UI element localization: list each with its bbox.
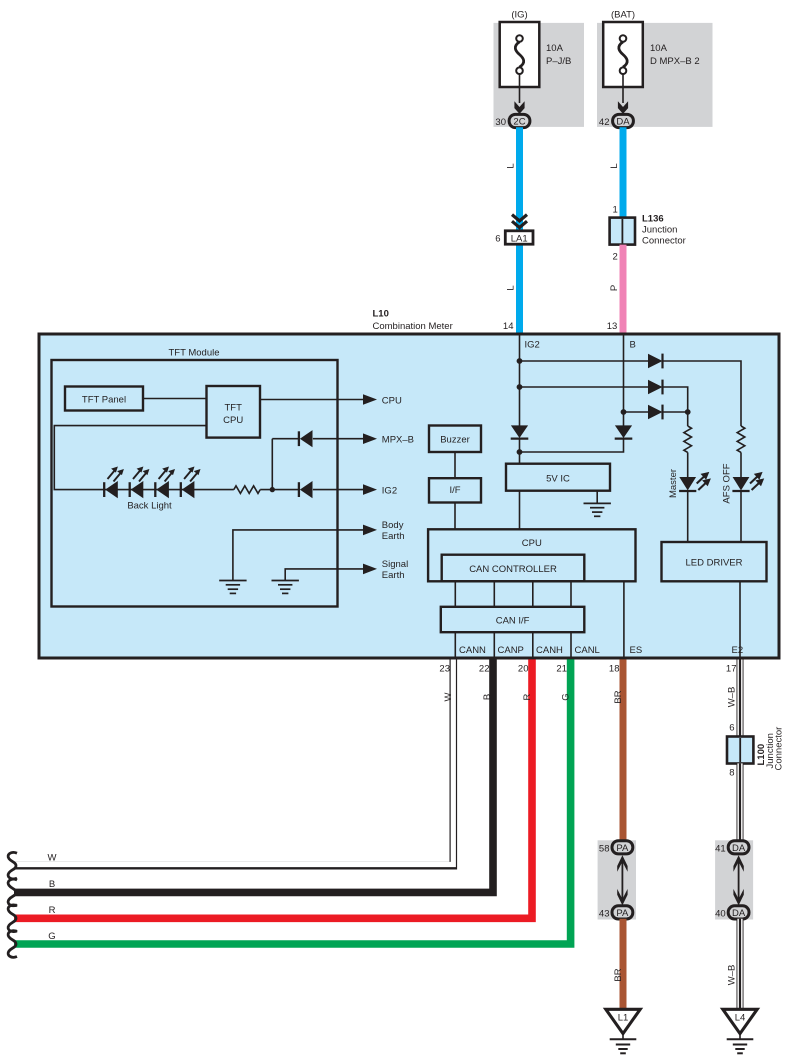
svg-text:10A: 10A: [546, 43, 564, 54]
svg-text:IG2: IG2: [525, 340, 540, 351]
wire CANP out: [493, 632, 495, 657]
break squiggle B: [8, 879, 17, 906]
svg-text:MPX–B: MPX–B: [382, 435, 414, 446]
wire I/F to CPU: [454, 503, 456, 530]
CAN I/F box: [441, 607, 585, 632]
svg-text:5V IC: 5V IC: [546, 474, 570, 485]
svg-text:CPU: CPU: [522, 538, 542, 549]
LED AFS OFF: [732, 472, 764, 491]
wire label W-B: [727, 687, 738, 708]
svg-text:6: 6: [729, 723, 734, 734]
inter-connector arrow DA: [733, 855, 743, 905]
wire L blue DA to L136: [620, 127, 627, 218]
wire fuse F2 to connector DA: [622, 74, 624, 103]
diode D6 row2: [648, 380, 663, 395]
wire IG2 out: [313, 489, 364, 491]
label Master: [668, 469, 679, 498]
svg-text:B: B: [49, 879, 55, 890]
connector DA pin 42: [599, 114, 633, 127]
CAN CONTROLLER box: [442, 555, 585, 582]
arrow into 2C: [514, 101, 524, 114]
svg-text:L136: L136: [642, 214, 664, 225]
net B vertical: [623, 336, 625, 427]
svg-text:Earth: Earth: [382, 531, 405, 542]
junction connector L136: [610, 218, 635, 245]
wire row1 to diode: [520, 360, 649, 362]
connector PA pin 43: [599, 906, 633, 920]
signal earth wire: [285, 569, 364, 581]
L100 label rotated: [756, 744, 767, 766]
wire B CANP pin 22: [14, 658, 493, 892]
svg-text:TFT: TFT: [224, 402, 242, 413]
node dot IG2 a: [517, 358, 523, 364]
wire label W vertical: [443, 692, 454, 701]
svg-text:P: P: [609, 285, 620, 291]
node dot IG2 b: [517, 384, 523, 390]
svg-text:Buzzer: Buzzer: [440, 435, 470, 446]
connector PA pin 58: [599, 841, 633, 855]
svg-text:Body: Body: [382, 520, 404, 531]
CAN bus wire 4: [570, 581, 572, 607]
arrow signal earth: [363, 564, 377, 575]
svg-text:18: 18: [609, 664, 620, 675]
diode D10 MPX-B: [299, 430, 313, 447]
svg-text:PA: PA: [616, 843, 629, 854]
wire color label L: [505, 163, 516, 168]
svg-text:B: B: [482, 694, 493, 700]
arrow MPX-B: [363, 433, 377, 444]
net IG2 vertical: [519, 336, 521, 427]
diode D8 down IG2: [511, 425, 529, 438]
wire 5V IC to CPU: [519, 491, 521, 530]
svg-text:Master: Master: [668, 469, 679, 498]
wire row1 diode to AFS branch: [663, 361, 742, 426]
svg-text:22: 22: [479, 664, 490, 675]
svg-text:W–B: W–B: [727, 687, 738, 708]
wire W CANN pin 23: [12, 658, 453, 866]
wire W-B lower: [737, 919, 744, 1009]
svg-text:20: 20: [518, 664, 529, 675]
svg-text:TFT Module: TFT Module: [168, 348, 219, 359]
svg-text:13: 13: [607, 321, 618, 332]
fuse F1 (IG): [500, 22, 540, 87]
node dot backlight: [270, 487, 275, 492]
svg-text:14: 14: [503, 321, 514, 332]
wire CANN out: [454, 632, 456, 657]
svg-text:G: G: [48, 931, 55, 942]
svg-text:Connector: Connector: [642, 236, 686, 247]
wire color label L: [505, 285, 516, 290]
diode D9 down B: [615, 425, 633, 438]
diode D11 IG2: [299, 481, 313, 498]
svg-text:ES: ES: [630, 645, 643, 656]
I/F box: [429, 478, 481, 502]
svg-text:W: W: [48, 853, 57, 864]
svg-text:AFS OFF: AFS OFF: [721, 463, 732, 503]
5V IC U2: [506, 464, 610, 491]
wire R CANH pin 20: [14, 659, 532, 918]
svg-text:W: W: [443, 692, 454, 701]
arrow IG2: [363, 484, 377, 495]
ground L1: [606, 1009, 640, 1053]
svg-text:Junction: Junction: [642, 225, 677, 236]
ground (body earth): [219, 581, 246, 594]
svg-text:8: 8: [729, 768, 734, 779]
svg-text:CAN I/F: CAN I/F: [496, 616, 530, 627]
fuse F2 (BAT): [603, 22, 643, 87]
wire label B vertical: [482, 694, 493, 700]
wire MPX-B out: [313, 438, 364, 440]
wire label BR: [613, 690, 624, 703]
svg-text:L4: L4: [735, 1013, 746, 1024]
svg-text:42: 42: [599, 117, 610, 128]
wire label BR lower: [613, 968, 624, 981]
wire BR lower: [620, 919, 627, 1009]
CAN bus wire 1: [454, 581, 456, 607]
svg-text:CPU: CPU: [223, 415, 243, 426]
chevron splice: [512, 215, 527, 228]
svg-text:L: L: [505, 285, 516, 290]
wire R3 to LED: [740, 452, 742, 477]
ground (5V IC): [584, 503, 611, 516]
svg-text:Earth: Earth: [382, 570, 405, 581]
svg-text:PA: PA: [616, 908, 629, 919]
ground stub 5V IC: [596, 491, 598, 504]
wire BR upper: [620, 659, 627, 841]
wire W-B upper: [737, 658, 744, 737]
MPX-B branch wire: [271, 439, 273, 490]
connector DA pin 40: [715, 906, 749, 920]
wire row2 to diode: [520, 386, 649, 388]
connector DA gray block: [715, 840, 753, 919]
wire LED AFS to driver: [740, 491, 742, 542]
wire R2 to LED: [687, 452, 689, 477]
svg-text:D MPX–B 2: D MPX–B 2: [650, 56, 700, 67]
wire CANH out: [532, 632, 534, 657]
TFT panel box: [65, 387, 143, 411]
svg-text:BR: BR: [613, 690, 624, 703]
connector DA pin 41: [715, 841, 749, 855]
svg-text:P–J/B: P–J/B: [546, 56, 571, 67]
svg-text:W–B: W–B: [727, 965, 738, 986]
wire CANL out: [570, 632, 572, 657]
svg-text:L1: L1: [618, 1013, 629, 1024]
svg-text:DA: DA: [616, 117, 630, 128]
svg-text:Combination Meter: Combination Meter: [373, 321, 453, 332]
body earth wire: [233, 530, 364, 581]
wire LED to driver: [687, 491, 689, 542]
svg-text:CANL: CANL: [575, 645, 600, 656]
node dot 5V in: [517, 449, 523, 455]
wire buzzer to I/F: [454, 452, 456, 478]
wire node to resistor Master: [687, 412, 689, 426]
wire P pink L136 to meter: [620, 245, 627, 333]
CPU box U3: [428, 529, 635, 581]
svg-text:IG2: IG2: [382, 485, 397, 496]
label Signal Earth: [382, 559, 408, 581]
svg-text:R: R: [522, 693, 533, 700]
svg-text:TFT Panel: TFT Panel: [82, 394, 126, 405]
svg-text:L: L: [609, 163, 620, 168]
connector 2C pin 30: [495, 114, 529, 127]
svg-text:17: 17: [726, 664, 737, 675]
wire TFT CPU to CPU arrow: [260, 399, 364, 401]
break squiggle R: [8, 905, 17, 932]
svg-text:2: 2: [613, 252, 618, 263]
splice LA1 pin 6: [495, 231, 533, 245]
svg-text:21: 21: [556, 664, 567, 675]
LED Master: [679, 472, 711, 491]
svg-text:(IG): (IG): [511, 10, 527, 21]
L136 label: [642, 214, 686, 247]
TFT module box: [52, 360, 338, 607]
break squiggle W: [8, 852, 17, 879]
diode D7 row3: [648, 405, 663, 420]
wire row2 diode to Master branch: [663, 387, 688, 412]
diode D5 row1: [648, 354, 663, 369]
LED D1 backlight: [104, 467, 124, 499]
break squiggle G: [8, 931, 17, 958]
LED D2 backlight: [130, 467, 150, 499]
inter-connector arrow PA: [617, 855, 627, 905]
resistor R1 backlight: [234, 486, 260, 494]
svg-text:10A: 10A: [650, 43, 668, 54]
svg-text:Signal: Signal: [382, 559, 408, 570]
svg-text:B: B: [630, 340, 636, 351]
svg-text:40: 40: [715, 908, 726, 919]
junction connector L100: [727, 737, 753, 764]
svg-text:E2: E2: [732, 645, 744, 656]
svg-text:G: G: [561, 693, 572, 700]
wire E2: [739, 581, 741, 657]
LED DRIVER box: [662, 542, 767, 581]
resistor R2 Master: [684, 426, 692, 452]
svg-text:Back Light: Back Light: [127, 501, 172, 512]
node dot Master branch: [685, 409, 691, 415]
svg-text:58: 58: [599, 843, 610, 854]
label AFS OFF: [721, 463, 732, 503]
ground (signal earth): [272, 581, 299, 594]
LED D4 backlight: [181, 467, 201, 499]
svg-text:I/F: I/F: [449, 485, 460, 496]
CAN bus wire 2: [493, 581, 495, 607]
svg-text:Connector: Connector: [774, 727, 785, 771]
CAN bus wire 3: [532, 581, 534, 607]
svg-text:1: 1: [613, 205, 618, 216]
svg-text:41: 41: [715, 843, 726, 854]
svg-text:LA1: LA1: [511, 233, 528, 244]
TFT CPU box: [207, 386, 261, 438]
wire ES: [623, 581, 625, 657]
wire TFT panel to TFT CPU: [143, 398, 207, 400]
wire label G vertical: [561, 693, 572, 700]
svg-text:43: 43: [599, 908, 610, 919]
arrow body earth: [363, 525, 377, 536]
wire G CANL pin 21: [14, 659, 571, 944]
wire L blue 2C to chevron: [516, 127, 523, 333]
combination meter box L10: [39, 334, 779, 658]
LED D3 backlight: [155, 467, 175, 499]
svg-text:DA: DA: [732, 843, 746, 854]
wire row3 diode to node: [663, 411, 688, 413]
svg-text:R: R: [49, 905, 56, 916]
svg-text:2C: 2C: [513, 117, 525, 128]
buzzer box: [429, 426, 481, 453]
wire fuse F1 to connector 2C: [519, 74, 521, 103]
svg-text:DA: DA: [732, 908, 746, 919]
gray panel (IG) fuse block: [494, 23, 585, 127]
svg-text:CANN: CANN: [459, 645, 486, 656]
svg-text:L: L: [505, 163, 516, 168]
arrow CPU: [363, 394, 377, 405]
wire D9 to node: [520, 439, 624, 452]
svg-text:30: 30: [495, 117, 506, 128]
wire D8 to 5V IC: [519, 439, 521, 464]
connector PA gray block: [598, 840, 636, 919]
wire color label P: [609, 285, 620, 291]
wire color label L: [609, 163, 620, 168]
label L10 Combination Meter: [373, 309, 453, 333]
wire label W-B lower: [727, 965, 738, 986]
wire label R vertical: [522, 693, 533, 700]
label Body Earth: [382, 520, 405, 542]
wire to MPX-B diode: [272, 438, 299, 440]
svg-text:BR: BR: [613, 968, 624, 981]
svg-text:(BAT): (BAT): [611, 10, 635, 21]
wire W-B mid: [737, 763, 744, 841]
svg-text:CANP: CANP: [498, 645, 524, 656]
backlight feed wire: [54, 426, 206, 490]
gray panel (BAT) fuse block: [597, 23, 713, 127]
resistor R3 AFS: [737, 426, 745, 452]
arrow into DA: [618, 101, 628, 114]
svg-text:CAN CONTROLLER: CAN CONTROLLER: [469, 564, 557, 575]
svg-text:CPU: CPU: [382, 395, 402, 406]
svg-text:6: 6: [495, 234, 500, 245]
backlight bus wire: [104, 489, 234, 491]
svg-text:LED DRIVER: LED DRIVER: [685, 558, 742, 569]
svg-text:CANH: CANH: [536, 645, 563, 656]
svg-text:L10: L10: [373, 309, 389, 320]
node dot B c: [621, 409, 627, 415]
wire R1 to diode IG2: [260, 489, 299, 491]
svg-text:23: 23: [439, 664, 450, 675]
wire row3 to diode: [624, 411, 649, 413]
ground L4: [723, 1009, 757, 1053]
